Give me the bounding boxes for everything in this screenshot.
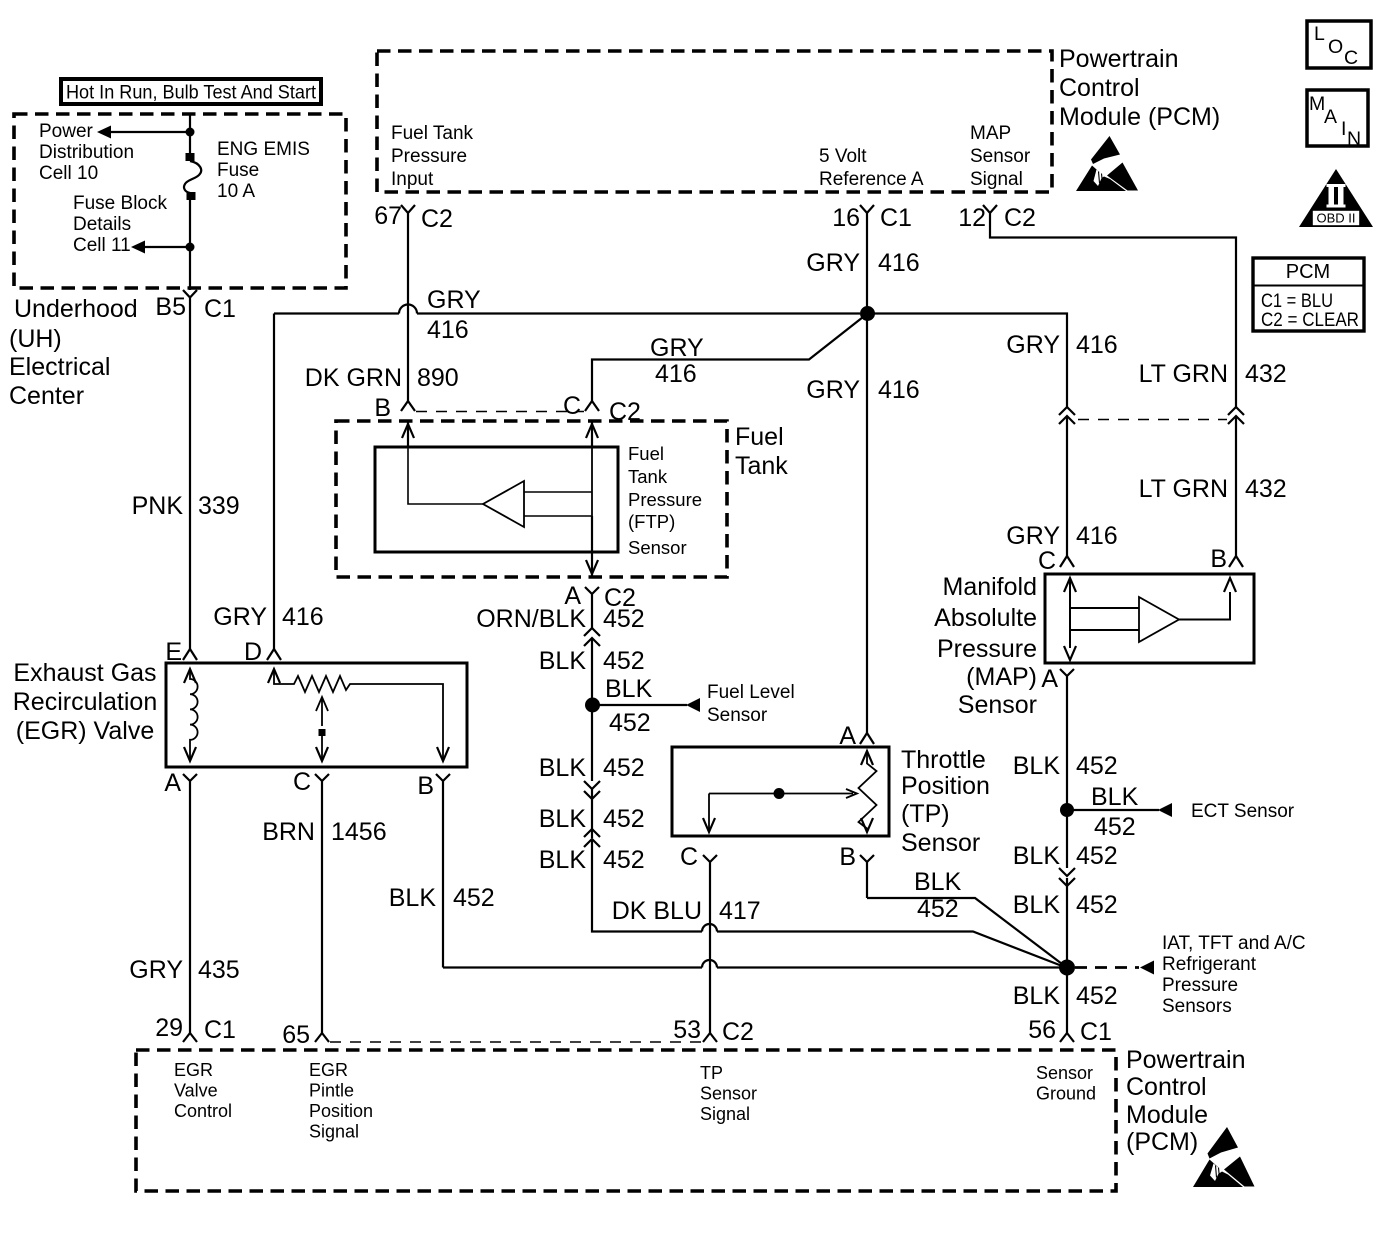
svg-text:Fuel: Fuel [735, 423, 784, 451]
svg-text:MAP: MAP [970, 123, 1011, 144]
splice break (down chevrons) [584, 781, 600, 799]
arrow up at MAP C inside box [1064, 578, 1076, 592]
svg-text:A: A [164, 769, 181, 797]
splice break on GRY 416 [1059, 407, 1075, 424]
FTP internal output line to B [408, 447, 483, 504]
svg-text:ECT Sensor: ECT Sensor [1191, 801, 1295, 822]
svg-text:I: I [1341, 118, 1346, 140]
svg-text:Position: Position [309, 1101, 373, 1121]
wire BLK 452 from break to sensor ground junction [1066, 878, 1068, 968]
FTP internal wire down to A [591, 516, 593, 577]
arrow up at EGR D inside box [268, 669, 280, 683]
svg-text:BLK: BLK [1091, 783, 1139, 811]
svg-text:Center: Center [9, 382, 84, 410]
svg-text:452: 452 [1094, 813, 1136, 841]
wire BLK 452 down from ECT splice [1066, 810, 1068, 868]
svg-text:PNK: PNK [132, 492, 184, 520]
svg-text:Fuel Tank: Fuel Tank [391, 123, 474, 144]
wire to Cell 11 arrow [145, 246, 190, 248]
FTP sensor box [375, 447, 618, 552]
svg-text:Reference A: Reference A [819, 169, 924, 190]
Underhood Electrical Center dashed box [14, 114, 346, 288]
svg-text:Input: Input [391, 169, 434, 190]
svg-text:452: 452 [1076, 982, 1118, 1010]
svg-text:IAT, TFT and A/C: IAT, TFT and A/C [1162, 933, 1306, 954]
coil: EGR solenoid winding [190, 669, 198, 761]
svg-text:DK BLU: DK BLU [612, 897, 702, 925]
connector pin 53 C2 [703, 1033, 717, 1042]
svg-text:Recirculation: Recirculation [13, 688, 158, 716]
wiper wire to EGR C [321, 735, 323, 761]
arrow: Fuse Block Details Cell 11 reference [131, 241, 145, 254]
svg-text:Details: Details [73, 214, 131, 235]
connector pin 16 C1 [860, 205, 874, 218]
connector TP pin A [860, 733, 874, 744]
svg-text:339: 339 [198, 492, 240, 520]
arrow: IAT TFT AC reference [1140, 961, 1154, 975]
node: sensor ground junction [1059, 960, 1075, 976]
dashed wire branch to IAT TFT AC sensors [1075, 966, 1139, 969]
svg-text:GRY: GRY [650, 334, 704, 362]
arrow up at FTP B [402, 424, 414, 438]
svg-text:BLK: BLK [539, 805, 587, 833]
connector EGR pin E [183, 649, 197, 660]
svg-text:452: 452 [453, 884, 495, 912]
svg-text:PCM: PCM [1286, 261, 1330, 283]
LOC reference box [1307, 21, 1371, 69]
arrow down at EGR C inside box [316, 747, 328, 761]
svg-text:432: 432 [1245, 475, 1287, 503]
svg-text:Control: Control [1126, 1073, 1207, 1101]
connector EGR pin A [183, 774, 197, 1033]
arrow down at MAP A inside box [1064, 646, 1076, 660]
svg-text:Pressure: Pressure [1162, 975, 1238, 996]
wire BLK 452 from junction to pin 56 [1066, 968, 1068, 1034]
svg-text:Control: Control [174, 1101, 232, 1121]
connector pin 67 C2 [401, 205, 415, 218]
svg-text:O: O [1328, 36, 1343, 58]
svg-text:Ground: Ground [1036, 1084, 1096, 1104]
arrow down at EGR B inside box [437, 747, 449, 761]
svg-text:BLK: BLK [605, 675, 653, 703]
svg-text:BLK: BLK [1013, 842, 1061, 870]
svg-text:BLK: BLK [539, 846, 587, 874]
node: ECT sensor splice [1060, 803, 1074, 817]
svg-text:BRN: BRN [262, 818, 315, 846]
svg-text:B: B [374, 394, 391, 422]
svg-text:452: 452 [1076, 752, 1118, 780]
svg-text:TP: TP [700, 1063, 723, 1083]
svg-text:Signal: Signal [700, 1104, 750, 1124]
svg-text:BLK: BLK [1013, 891, 1061, 919]
svg-text:Sensor: Sensor [970, 146, 1031, 167]
svg-text:Exhaust Gas: Exhaust Gas [13, 659, 156, 687]
wire DK GRN 890 from pin 67 to fuel tank B [407, 218, 409, 401]
fuse ENG EMIS: top terminal [186, 153, 195, 161]
svg-text:452: 452 [1076, 842, 1118, 870]
arrow up at TP A inside box [861, 751, 873, 765]
ESD sensitivity symbol top [1076, 136, 1138, 191]
svg-text:GRY: GRY [806, 376, 860, 404]
svg-text:BLK: BLK [389, 884, 437, 912]
svg-text:Module (PCM): Module (PCM) [1059, 103, 1220, 131]
svg-text:B: B [1210, 545, 1227, 573]
arrow down at EGR A inside box [184, 747, 196, 761]
connector MAP pin A [1060, 669, 1074, 810]
svg-text:452: 452 [603, 846, 645, 874]
svg-text:GRY: GRY [427, 286, 481, 314]
svg-text:ENG EMIS: ENG EMIS [217, 139, 310, 160]
svg-text:416: 416 [1076, 522, 1118, 550]
svg-text:5 Volt: 5 Volt [819, 146, 867, 167]
splice break on BLK 452 [1059, 868, 1075, 886]
svg-text:DK GRN: DK GRN [305, 364, 402, 392]
dashed connector link B to C [416, 411, 584, 413]
svg-text:BLK: BLK [539, 754, 587, 782]
wire BLK 452 down from splice [591, 705, 593, 781]
wire GRY 416 diagonal branch to FTP sensor C [592, 314, 868, 402]
svg-text:Hot In Run, Bulb Test And Star: Hot In Run, Bulb Test And Start [66, 82, 317, 104]
dashed connector link 65 to 53 [330, 1041, 702, 1043]
wire LT GRN 432 from break to MAP pin B [1235, 416, 1237, 556]
wire BLK 452 between breaks [591, 789, 593, 838]
svg-text:Powertrain: Powertrain [1126, 1046, 1246, 1074]
svg-text:(EGR) Valve: (EGR) Valve [16, 717, 154, 745]
svg-text:452: 452 [917, 895, 959, 923]
arrow down at FTP A [586, 560, 598, 574]
svg-text:L: L [1314, 23, 1325, 45]
connector fuel tank pin B [401, 401, 415, 411]
svg-text:Sensor: Sensor [958, 691, 1037, 719]
wire GRY 416 horizontal to EGR with hop over DK GRN [274, 305, 860, 314]
svg-text:(UH): (UH) [9, 325, 62, 353]
svg-text:(FTP): (FTP) [628, 511, 675, 532]
svg-text:C: C [680, 843, 698, 871]
svg-text:C: C [1344, 47, 1358, 69]
svg-text:M: M [1309, 93, 1325, 115]
TP sensor box [672, 747, 889, 836]
PCM bottom dashed box [136, 1050, 1116, 1191]
fuse ENG EMIS: bottom terminal [187, 192, 196, 200]
connector pin 29 C1 [183, 1033, 197, 1042]
MAP internal input wire [1070, 578, 1139, 648]
svg-text:53: 53 [673, 1016, 701, 1044]
wire fuel tank C into FTP box with arrow [591, 421, 593, 447]
wire GRY 416 from pin 16 down to junction [866, 218, 868, 314]
svg-text:C2: C2 [1004, 204, 1036, 232]
svg-text:Valve: Valve [174, 1081, 218, 1101]
PCM connector legend box [1253, 258, 1364, 331]
svg-text:C: C [563, 392, 581, 420]
svg-text:Sensor: Sensor [707, 705, 768, 726]
EGR valve box [166, 663, 467, 767]
connector pin 12 C2 [983, 205, 997, 218]
svg-text:452: 452 [603, 605, 645, 633]
arrow: Power Distribution reference [97, 126, 111, 139]
svg-text:452: 452 [1076, 891, 1118, 919]
svg-text:Pressure: Pressure [628, 489, 702, 510]
svg-text:Fuel Level: Fuel Level [707, 682, 795, 703]
svg-text:416: 416 [878, 376, 920, 404]
svg-text:12: 12 [958, 204, 986, 232]
connector TP pin B [860, 855, 874, 898]
wire GRY 416 from junction down to TP pin A [866, 314, 868, 734]
connector EGR pin D [267, 649, 281, 660]
connector TP pin C [703, 855, 717, 1033]
connector EGR pin C [315, 774, 329, 1033]
splice break (up chevrons) [584, 829, 600, 847]
splice break on LT GRN 432 [1228, 407, 1244, 424]
svg-text:890: 890 [417, 364, 459, 392]
svg-text:GRY: GRY [806, 249, 860, 277]
svg-text:ORN/BLK: ORN/BLK [476, 605, 586, 633]
svg-text:C2 = CLEAR: C2 = CLEAR [1261, 309, 1359, 331]
svg-text:Sensor: Sensor [901, 829, 980, 857]
svg-text:LT GRN: LT GRN [1139, 360, 1228, 388]
wire BLK 452 from TP B to sensor ground junction [867, 898, 1066, 967]
splice break on ORN/BLK 452 [584, 628, 600, 646]
svg-text:C1: C1 [204, 1016, 236, 1044]
svg-text:GRY: GRY [1006, 522, 1060, 550]
svg-text:B: B [839, 843, 856, 871]
wire GRY 416 down to EGR pin D [273, 314, 275, 650]
svg-text:16: 16 [832, 204, 860, 232]
op-amp FTP sensor element [483, 481, 524, 527]
svg-text:Absolulte: Absolulte [934, 604, 1037, 632]
svg-text:A: A [1041, 665, 1058, 693]
svg-text:416: 416 [427, 316, 469, 344]
MAP internal output wire to B [1179, 592, 1230, 620]
svg-text:BLK: BLK [914, 868, 962, 896]
svg-text:BLK: BLK [1013, 982, 1061, 1010]
connector fuel tank pin C C2 [585, 401, 599, 411]
svg-text:Fuse: Fuse [217, 160, 259, 181]
node: GRY 416 5V reference junction [860, 306, 875, 321]
dashed splice link between GRY and LT GRN breaks [1078, 419, 1227, 421]
wire fuel tank B into FTP box with arrow [407, 421, 409, 447]
svg-text:(PCM): (PCM) [1126, 1128, 1198, 1156]
label box: Hot In Run, Bulb Test And Start [61, 79, 321, 104]
svg-text:BLK: BLK [1013, 752, 1061, 780]
svg-text:Throttle: Throttle [901, 746, 986, 774]
MAP sensor box [1045, 574, 1254, 663]
arrow: fuel level sensor reference [686, 698, 700, 712]
wire BLK 452 down and right to sensor ground junction [592, 839, 1066, 968]
svg-text:Tank: Tank [628, 466, 668, 487]
ESD sensitivity symbol bottom [1193, 1127, 1255, 1187]
svg-text:B5: B5 [155, 293, 186, 321]
svg-text:Sensor: Sensor [628, 537, 687, 558]
svg-text:Pressure: Pressure [391, 146, 467, 167]
wire PNK 339 from B5 to EGR pin E [189, 306, 191, 649]
svg-text:B: B [417, 772, 434, 800]
svg-text:416: 416 [1076, 331, 1118, 359]
resistor: EGR pintle position element [274, 669, 443, 761]
svg-text:C: C [1038, 547, 1056, 575]
arrow: ECT sensor reference [1158, 803, 1172, 817]
Fuel Tank dashed box [336, 421, 727, 577]
node: wiper junction dot [774, 788, 785, 799]
svg-text:65: 65 [282, 1021, 310, 1049]
wire GRY 416 from break to MAP pin C [1066, 416, 1068, 556]
connector pin 65 [315, 1033, 329, 1042]
svg-text:452: 452 [603, 647, 645, 675]
wire BLK 452 to fuel level junction [591, 638, 593, 705]
arrow down at TP B inside box [861, 818, 873, 832]
connector EGR pin B [436, 774, 450, 968]
resistor: TP potentiometer element [859, 751, 877, 832]
svg-text:Module: Module [1126, 1101, 1208, 1129]
svg-text:10 A: 10 A [217, 181, 255, 202]
svg-text:C1: C1 [1080, 1018, 1112, 1046]
svg-text:Manifold: Manifold [943, 573, 1038, 601]
svg-text:435: 435 [198, 956, 240, 984]
svg-text:416: 416 [282, 603, 324, 631]
wire to Power Distribution arrow [111, 131, 190, 133]
svg-text:452: 452 [603, 805, 645, 833]
svg-text:Control: Control [1059, 74, 1140, 102]
wire branch to ECT sensor [1067, 809, 1159, 811]
svg-text:Fuse Block: Fuse Block [73, 193, 167, 214]
svg-text:GRY: GRY [1006, 331, 1060, 359]
svg-text:BLK: BLK [539, 647, 587, 675]
svg-text:416: 416 [878, 249, 920, 277]
svg-text:C1: C1 [880, 204, 912, 232]
svg-text:Fuel: Fuel [628, 443, 664, 464]
svg-text:Cell 10: Cell 10 [39, 163, 98, 184]
svg-text:Powertrain: Powertrain [1059, 45, 1179, 73]
fuse ENG EMIS: wavy element [184, 161, 201, 193]
MAIN reference box [1307, 90, 1368, 150]
wiper arrow up at EGR C [316, 697, 328, 726]
svg-text:Sensor: Sensor [1036, 1063, 1093, 1083]
svg-text:67: 67 [374, 202, 402, 230]
node: junction to Fuse Block Details [186, 243, 195, 252]
svg-text:452: 452 [603, 754, 645, 782]
svg-text:LT GRN: LT GRN [1139, 475, 1228, 503]
svg-text:EGR: EGR [309, 1060, 348, 1080]
connector B5 C1 at UH electrical center [183, 290, 197, 306]
wiper square indicator [319, 729, 326, 736]
wire GRY 416 horizontal to MAP branch [868, 314, 1068, 408]
wire LT GRN 432 from pin 12 [990, 218, 1236, 407]
svg-text:56: 56 [1028, 1016, 1056, 1044]
svg-text:452: 452 [609, 709, 651, 737]
arrow up at FTP C [586, 424, 598, 438]
svg-text:417: 417 [719, 897, 761, 925]
wire branch to fuel level sensor [592, 704, 687, 706]
svg-text:Refrigerant: Refrigerant [1162, 954, 1257, 975]
svg-text:1456: 1456 [331, 818, 387, 846]
arrow up at MAP B inside box [1224, 578, 1236, 592]
svg-text:N: N [1347, 128, 1361, 150]
wiper wire down to TP C [708, 794, 710, 833]
FTP internal input taps [524, 492, 592, 516]
arrow up at EGR E inside box [184, 669, 196, 683]
op-amp MAP sensor element [1139, 597, 1179, 642]
node: feed junction to Power Distribution [186, 128, 195, 137]
svg-text:C1: C1 [204, 295, 236, 323]
svg-text:GRY: GRY [213, 603, 267, 631]
svg-text:OBD II: OBD II [1316, 211, 1355, 226]
svg-text:Distribution: Distribution [39, 142, 134, 163]
svg-text:A: A [1324, 106, 1337, 128]
svg-text:C2: C2 [722, 1018, 754, 1046]
svg-text:432: 432 [1245, 360, 1287, 388]
svg-text:Cell 11: Cell 11 [73, 235, 131, 256]
svg-text:(MAP): (MAP) [966, 663, 1037, 691]
svg-text:29: 29 [155, 1014, 183, 1042]
svg-text:GRY: GRY [129, 956, 183, 984]
wiper arrow of TP sensor [709, 789, 857, 798]
svg-text:C2: C2 [421, 205, 453, 233]
svg-text:Position: Position [901, 772, 990, 800]
connector MAP pin C [1060, 556, 1074, 567]
svg-text:Pressure: Pressure [937, 635, 1037, 663]
connector MAP pin B [1229, 556, 1243, 567]
svg-text:EGR: EGR [174, 1060, 213, 1080]
svg-text:Sensor: Sensor [700, 1084, 757, 1104]
svg-text:Underhood: Underhood [14, 295, 138, 323]
OBD II symbol triangle [1299, 169, 1373, 227]
svg-text:Electrical: Electrical [9, 353, 110, 381]
connector pin 56 C1 [1060, 1033, 1074, 1042]
svg-text:Tank: Tank [735, 452, 788, 480]
connector FTP pin A C2 [585, 587, 599, 628]
PCM top dashed box (Fuel Tank Pressure Input) [377, 51, 1052, 192]
wire from fuse to B5 [189, 199, 191, 290]
arrow down at TP C inside box [703, 818, 715, 832]
svg-text:C: C [293, 768, 311, 796]
wire from Hot In Run feed down to fuse [189, 114, 191, 153]
svg-text:Power: Power [39, 121, 94, 142]
node: fuel level sensor splice [585, 698, 600, 713]
svg-text:Signal: Signal [309, 1122, 359, 1142]
svg-text:(TP): (TP) [901, 800, 950, 828]
svg-text:Pintle: Pintle [309, 1081, 354, 1101]
wire BLK 452 from EGR B to sensor ground junction with hop [443, 960, 1067, 968]
svg-text:416: 416 [655, 360, 697, 388]
svg-text:Signal: Signal [970, 169, 1023, 190]
svg-text:Sensors: Sensors [1162, 996, 1232, 1017]
